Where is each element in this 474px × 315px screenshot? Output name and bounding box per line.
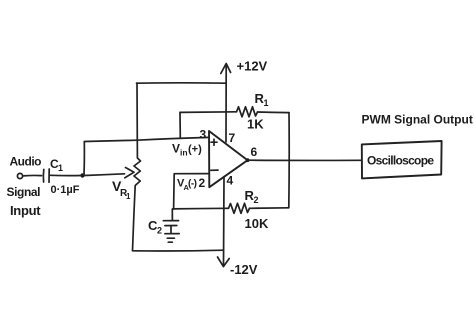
wire C1 to junction (51, 174, 82, 176)
svg-text:(+): (+) (188, 144, 202, 156)
+12V supply arrow (221, 64, 231, 143)
label Vin(+) (172, 142, 202, 158)
wire terminal to C1 (23, 174, 41, 176)
wire R1 row left segment (180, 111, 237, 114)
svg-text:Signal: Signal (7, 185, 41, 199)
wire feedback right vertical (288, 113, 290, 208)
wiper arrow of VR1 (85, 168, 135, 178)
op-amp U1 (209, 131, 248, 187)
svg-text:Oscilloscope: Oscilloscope (367, 154, 434, 168)
svg-text:PWM Signal Output: PWM Signal Output (362, 113, 473, 127)
ground (165, 234, 179, 243)
label VR1 (112, 178, 131, 201)
oscilloscope box (362, 141, 442, 178)
svg-text:1K: 1K (247, 117, 264, 132)
wire R2 row right segment (250, 207, 289, 210)
resistor R1 (237, 107, 258, 117)
svg-text:10K: 10K (245, 216, 269, 231)
wire R2 row left segment (173, 207, 229, 210)
svg-text:(-): (-) (188, 179, 197, 190)
wire pin 2 (174, 174, 209, 209)
label VA(-) (177, 178, 197, 193)
svg-text:2: 2 (157, 226, 162, 236)
wire pin3 row to op-amp input (137, 137, 209, 140)
svg-text:in: in (180, 148, 188, 158)
capacitor C2 (163, 210, 178, 234)
svg-text:1: 1 (264, 98, 269, 108)
svg-text:7: 7 (229, 131, 236, 145)
label R2 (245, 188, 259, 205)
potentiometer VR1 (133, 83, 141, 251)
wire junction up to pin3 row (84, 140, 137, 175)
svg-text:1: 1 (58, 163, 63, 173)
svg-text:3: 3 (200, 128, 207, 142)
svg-text:Audio: Audio (10, 155, 42, 169)
-12V supply arrow (218, 178, 230, 267)
label R1 (255, 91, 269, 108)
svg-text:2: 2 (199, 176, 206, 190)
svg-text:+12V: +12V (237, 59, 268, 74)
node output apex (246, 158, 250, 162)
svg-text:Input: Input (10, 203, 41, 218)
label C2 (148, 218, 162, 236)
wire output to oscilloscope (248, 159, 361, 161)
wire pot bottom to -12V rail (133, 249, 224, 252)
input terminal (17, 173, 22, 178)
svg-text:2: 2 (254, 195, 259, 205)
label C1 (50, 157, 63, 173)
wire R1 left vertical (pin3 to R1) (179, 112, 181, 137)
node A (input junction) (80, 173, 84, 177)
resistor R2 (229, 203, 250, 213)
svg-text:4: 4 (227, 174, 234, 188)
svg-text:V: V (172, 142, 180, 156)
svg-text:-12V: -12V (230, 262, 258, 277)
wire pot top to +12V rail (137, 82, 227, 84)
svg-text:0·1µF: 0·1µF (51, 184, 80, 196)
capacitor C1 (43, 169, 49, 182)
svg-text:6: 6 (251, 145, 258, 159)
wire R1 row right segment (258, 111, 290, 114)
svg-text:1: 1 (126, 192, 131, 201)
